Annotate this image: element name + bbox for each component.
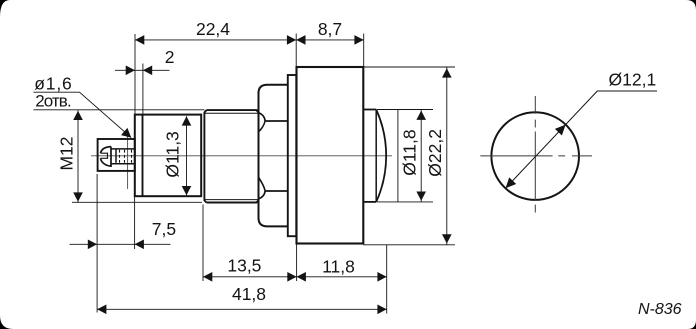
arrowhead 22,4 right	[287, 35, 296, 45]
arrowhead 11,8 right	[377, 272, 386, 282]
svg-text:2отв.: 2отв.	[35, 91, 71, 110]
arrowhead O11,3 bottom	[182, 186, 192, 195]
arrowhead 13,5 right	[287, 272, 296, 282]
arrowhead O11,3 top	[182, 116, 192, 125]
svg-text:13,5: 13,5	[227, 256, 261, 276]
hex nut outline	[259, 85, 288, 227]
M12 top extension line	[33, 109, 204, 111]
arrowhead O12,1 upper	[555, 125, 566, 136]
M12 dimension line	[77, 110, 79, 202]
body collar step line	[142, 115, 144, 197]
hex chamfer cusp top	[259, 113, 266, 132]
lamp housing O22,2	[297, 67, 364, 244]
svg-text:ø1,6: ø1,6	[34, 73, 72, 93]
extension line body left lower	[134, 197, 136, 250]
arrowhead O22,2 top	[442, 68, 452, 77]
arrowhead leader o1,6	[121, 128, 131, 138]
hex chamfer cusp bottom	[259, 177, 266, 199]
O11,8 extension lines	[377, 109, 433, 111]
circle center line vertical	[534, 96, 536, 213]
arrowhead O11,8 top	[416, 111, 426, 120]
O22,2 dimension line	[446, 67, 448, 245]
extension line flange right	[295, 34, 297, 67]
arrowhead 13,5 left	[203, 272, 212, 282]
arrowhead 8,7 left	[296, 35, 305, 45]
dimension 2	[115, 69, 170, 71]
circle center line horizontal	[480, 155, 592, 157]
axis center line	[91, 155, 392, 157]
arrowhead O11,8 bottom	[416, 192, 426, 201]
terminal hole axis line	[127, 137, 129, 190]
arrowhead 2 left	[126, 66, 135, 76]
extension line collar	[142, 64, 144, 115]
M12 bottom extension line	[72, 201, 202, 203]
arrowhead 11,8 left	[297, 272, 306, 282]
extension line housing right	[363, 34, 365, 68]
lens chord projection line	[397, 110, 399, 202]
screw hidden thread dashed lines	[119, 150, 121, 163]
svg-text:Ø12,1: Ø12,1	[609, 70, 657, 90]
extension line lens apex lower	[386, 245, 388, 314]
dimension 8,7	[296, 39, 364, 41]
arrowhead M12 bottom	[73, 192, 83, 201]
svg-text:8,7: 8,7	[318, 19, 342, 39]
svg-text:2: 2	[165, 47, 175, 67]
lens cylinder	[363, 109, 376, 111]
arrowhead 22,4 left	[135, 35, 144, 45]
thread root lines	[204, 112, 258, 114]
callout shelf and leader o1,6	[33, 92, 131, 137]
panel hole circle O12,1	[491, 112, 579, 200]
dimension 41,8	[97, 308, 387, 310]
screw washer	[115, 149, 117, 163]
dimension 7,5	[70, 243, 171, 245]
arrowhead O12,1 lower	[506, 177, 517, 188]
extension line body left	[134, 34, 136, 115]
arrowhead M12 top	[73, 111, 83, 120]
lens dome arc	[376, 110, 386, 202]
threaded bushing M12 outline	[204, 110, 258, 202]
extension line thread left lower	[202, 205, 204, 282]
screw head with slot	[101, 147, 112, 167]
flange	[288, 75, 297, 236]
svg-text:M12: M12	[57, 136, 77, 170]
dimension 13,5 and 11,8	[203, 276, 387, 278]
arrowhead 41,8 left	[97, 305, 106, 315]
O12,1 diameter leader line with shelf	[506, 91, 658, 188]
arrowhead 7,5 right	[135, 240, 144, 250]
arrowhead 41,8 right	[377, 305, 386, 315]
screw shank outline	[112, 148, 135, 150]
svg-text:Ø11,8: Ø11,8	[399, 129, 419, 175]
svg-text:41,8: 41,8	[232, 284, 266, 304]
arrowhead 2 right	[143, 66, 152, 76]
arrowhead 7,5 left	[88, 240, 97, 250]
extension line flange left lower	[296, 244, 298, 281]
body cylinder O11,3	[135, 115, 201, 197]
dimension 22,4	[135, 39, 296, 41]
arrowhead 8,7 right	[354, 35, 363, 45]
O11,8 dimension line	[420, 110, 422, 202]
svg-text:Ø22,2: Ø22,2	[425, 129, 445, 177]
svg-text:Ø11,3: Ø11,3	[163, 131, 183, 177]
O11,3 dimension line	[186, 116, 188, 195]
svg-text:22,4: 22,4	[196, 19, 230, 39]
O22,2 extension lines	[363, 66, 455, 68]
extension line screw left	[96, 174, 98, 313]
terminal block	[98, 139, 135, 171]
svg-text:7,5: 7,5	[152, 219, 176, 239]
svg-text:N-836: N-836	[638, 301, 682, 318]
svg-text:11,8: 11,8	[322, 256, 355, 276]
arrowhead O22,2 bottom	[442, 234, 452, 243]
